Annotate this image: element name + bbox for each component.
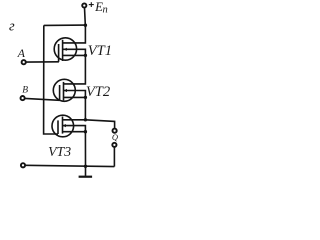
junction dot VT1 source [84, 54, 87, 57]
junction dot supply [84, 24, 87, 27]
wire B to VT2 gate [25, 98, 60, 100]
junction dot VT3 source [84, 130, 87, 133]
svg-text:VT2: VT2 [86, 84, 110, 100]
svg-text:B: B [22, 85, 28, 95]
svg-text:VT1: VT1 [88, 43, 112, 59]
input terminal A [22, 60, 26, 64]
wire bottom ground rail [25, 165, 114, 166]
junction dot output node [84, 118, 87, 121]
wire VT3 source stub [63, 131, 86, 133]
input terminal B [21, 96, 25, 100]
wire A to VT1 gate [26, 61, 59, 63]
wire supply to VT1 drain [63, 25, 86, 43]
output terminal Q lower [112, 143, 116, 147]
wire output tap to upper Q terminal [85, 120, 114, 129]
wire +En stem [84, 8, 87, 25]
junction dot VT2 source [84, 96, 87, 99]
ground [79, 176, 93, 178]
wire VT2 source stub [64, 96, 86, 98]
svg-text:г: г [9, 18, 15, 34]
transistor VT2 [53, 79, 75, 101]
output terminal Q upper [113, 129, 117, 133]
wire VT1 source stub [63, 54, 86, 56]
wire VT1 substrate/source bus to VT2 drain [63, 49, 86, 84]
transistor VT1 [54, 38, 76, 62]
label +Eп [89, 2, 94, 7]
wire VT3 gate line (left vertical from +E rail) [44, 25, 58, 134]
wire VT2 substrate bus to output node [64, 91, 86, 120]
svg-text:A: A [17, 46, 26, 60]
wire lower Q to ground rail [113, 147, 115, 166]
svg-text:п: п [103, 5, 108, 16]
power terminal +En [82, 3, 86, 7]
junction dot ground rail [84, 165, 87, 168]
wire VT3 substrate bus to ground rail [63, 126, 86, 176]
svg-text:VT3: VT3 [48, 144, 71, 159]
wire top power rail [44, 24, 86, 26]
svg-text:Q: Q [112, 132, 118, 142]
wire VT3 drain stub [63, 119, 86, 121]
transistor VT3 [52, 115, 74, 137]
common terminal bottom left [21, 163, 25, 167]
